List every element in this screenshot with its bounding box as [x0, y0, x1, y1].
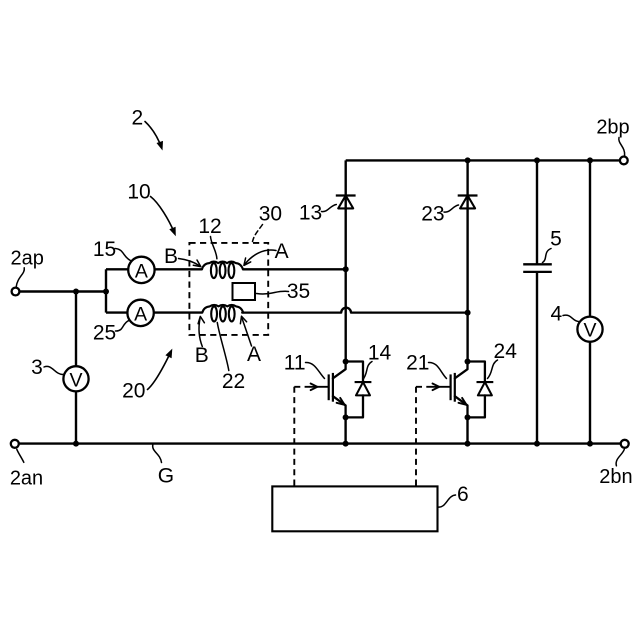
leader 23: [444, 205, 459, 212]
diode 23: [458, 194, 478, 196]
svg-text:2bp: 2bp: [596, 116, 629, 138]
dashed box 30: [189, 243, 268, 335]
terminal 2bp: [620, 157, 628, 165]
wire diode23 vertical: [466, 160, 468, 312]
wire emitter21-gnd: [466, 417, 468, 443]
wire branch vertical: [105, 269, 107, 312]
leader 2ap: [16, 268, 24, 287]
svg-text:2bn: 2bn: [599, 466, 632, 488]
svg-text:6: 6: [457, 483, 469, 506]
svg-text:21: 21: [406, 351, 429, 374]
leader 4: [563, 315, 579, 321]
svg-text:2an: 2an: [10, 468, 43, 490]
wire to ammeter 15: [106, 268, 128, 270]
arrow 20: [148, 352, 172, 390]
ammeter A25: [127, 300, 153, 326]
dashed control line 11: [293, 387, 295, 487]
arrow 10: [151, 197, 175, 234]
wire1 coil12 right: [243, 268, 346, 270]
svg-text:4: 4: [550, 303, 562, 326]
wire2 coil22 left: [154, 311, 203, 313]
wire to ammeter 25: [106, 311, 128, 313]
svg-text:B: B: [164, 245, 178, 268]
node gnd-vm4: [587, 441, 593, 447]
wire vm3 top: [75, 292, 77, 367]
leader B top arrow: [179, 259, 200, 266]
leader 14: [363, 362, 372, 380]
svg-text:23: 23: [421, 202, 444, 225]
node rail-cap: [534, 157, 540, 163]
svg-text:13: 13: [299, 202, 322, 225]
inductor L22: [202, 305, 243, 313]
svg-text:25: 25: [93, 322, 116, 345]
svg-text:2ap: 2ap: [11, 247, 44, 269]
wire diode13 vertical: [345, 160, 347, 269]
leader 2an: [17, 449, 24, 462]
dashed control line 21: [415, 387, 417, 487]
node collector 21: [465, 359, 471, 365]
transistor Q11 (IGBT): [328, 374, 330, 400]
wire cap top: [536, 160, 538, 264]
wire x345 mid: [345, 269, 347, 361]
svg-text:3: 3: [31, 356, 43, 379]
arrow 2: [145, 122, 162, 148]
wire vm3 bottom: [75, 391, 77, 443]
terminal 2an: [11, 440, 19, 448]
svg-text:V: V: [583, 320, 596, 342]
node wire2-x23: [465, 310, 471, 316]
svg-text:B: B: [195, 344, 209, 367]
svg-text:V: V: [69, 369, 82, 391]
wire cap bottom: [536, 272, 538, 444]
leader 11: [306, 362, 325, 378]
wire x467 mid: [466, 313, 468, 362]
transistor Q21 (IGBT): [450, 374, 452, 400]
wire2 hop over x345: [242, 308, 467, 313]
capacitor C5: [523, 263, 552, 265]
svg-text:11: 11: [284, 351, 306, 374]
leader B bottom arrow: [199, 319, 202, 347]
diode 13: [336, 194, 356, 196]
svg-text:22: 22: [222, 370, 245, 393]
svg-text:2: 2: [132, 107, 144, 130]
leader 25: [116, 321, 130, 332]
svg-text:30: 30: [259, 202, 282, 225]
svg-text:35: 35: [287, 280, 310, 303]
wire vm4 bottom: [589, 342, 591, 444]
wire1 coil12 left: [155, 268, 202, 270]
box 35: [233, 283, 256, 300]
leader G: [153, 445, 162, 463]
voltmeter V4: [577, 317, 602, 342]
leader 5: [543, 249, 552, 263]
diode 14: [346, 362, 363, 383]
node input-vm: [73, 289, 79, 295]
svg-text:12: 12: [198, 215, 221, 238]
leader 35: [257, 291, 289, 294]
node input-branch: [103, 289, 109, 295]
wire ground rail: [19, 442, 621, 444]
wire vm4 top: [589, 160, 591, 316]
leader 2bn: [616, 449, 624, 466]
leader 22: [217, 323, 229, 371]
ammeter A15: [128, 257, 154, 283]
svg-text:G: G: [158, 465, 174, 488]
svg-text:15: 15: [93, 238, 116, 261]
leader 30 dashed: [253, 225, 263, 242]
box 6 (control unit): [272, 486, 437, 531]
svg-text:5: 5: [550, 227, 562, 250]
wire input: [19, 290, 106, 292]
inductor L12: [202, 262, 243, 270]
leader 13: [322, 205, 337, 212]
wire emitter11-gnd: [344, 417, 346, 443]
leader A top arrow: [245, 250, 276, 264]
node rail-23: [465, 157, 471, 163]
leader 3: [44, 366, 64, 374]
svg-text:A: A: [134, 303, 147, 325]
leader A bottom arrow: [242, 318, 252, 346]
node emitter 11: [343, 414, 349, 420]
node gnd-11: [343, 441, 349, 447]
svg-text:A: A: [247, 343, 261, 366]
terminal 2ap: [12, 288, 20, 296]
leader 6: [438, 495, 456, 507]
node gnd-vm3: [73, 441, 79, 447]
leader 2bp: [619, 138, 625, 156]
leader 24: [488, 360, 498, 379]
svg-text:A: A: [135, 260, 148, 282]
node gnd-21: [465, 441, 471, 447]
svg-text:A: A: [275, 240, 289, 263]
node wire1-x13: [343, 266, 349, 272]
node emitter 21: [465, 414, 471, 420]
leader 12: [211, 237, 217, 259]
svg-text:10: 10: [127, 180, 150, 203]
node rail-vm: [587, 157, 593, 163]
svg-text:20: 20: [122, 379, 145, 402]
node gnd-cap: [534, 441, 540, 447]
node collector 11: [343, 359, 349, 365]
wire top rail: [346, 159, 620, 161]
leader 15: [115, 249, 131, 261]
leader 21: [429, 362, 447, 378]
terminal 2bn: [621, 440, 629, 448]
diode 24: [468, 362, 485, 383]
voltmeter V3: [63, 366, 88, 391]
